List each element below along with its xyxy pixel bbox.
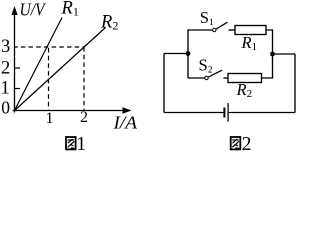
- wire bottom left: [164, 112, 224, 114]
- x-axis (I axis): [13, 107, 132, 113]
- svg-text:S1: S1: [200, 8, 214, 28]
- svg-text:R1: R1: [61, 0, 79, 19]
- wire S2 to R2: [224, 77, 229, 79]
- y-axis tick y=2: [15, 67, 21, 69]
- switch S1 pivot: [213, 28, 216, 31]
- wire right node to right rail: [273, 53, 296, 55]
- svg-text:R2: R2: [100, 13, 118, 33]
- resistor R1 box: [235, 26, 266, 35]
- svg-text:2: 2: [80, 109, 88, 126]
- svg-text:R1: R1: [241, 33, 258, 53]
- y-axis (U axis): [11, 6, 17, 113]
- caption 图1: [66, 134, 86, 155]
- svg-text:1: 1: [76, 134, 86, 155]
- switch S2 blade: [208, 70, 222, 77]
- switch S2 pivot: [205, 76, 208, 79]
- battery negative plate: [223, 108, 225, 118]
- svg-text:0: 0: [1, 97, 10, 117]
- switch S1 blade: [216, 22, 228, 29]
- wire left node to left rail: [164, 53, 188, 55]
- junction node left: [186, 51, 191, 56]
- svg-text:1: 1: [1, 79, 10, 99]
- dashed line x=1: [48, 48, 50, 110]
- dashed line x=2: [83, 47, 85, 110]
- svg-text:I/A: I/A: [112, 113, 138, 133]
- resistor R2 box: [228, 74, 262, 83]
- wire R2 to right node: [262, 54, 273, 78]
- wire left rail: [163, 54, 165, 113]
- svg-text:2: 2: [242, 134, 252, 155]
- wire S2 branch left: [188, 77, 205, 79]
- wire right rail: [294, 54, 296, 113]
- y-axis tick y=1: [15, 88, 21, 90]
- svg-text:2: 2: [1, 59, 10, 79]
- svg-text:U/V: U/V: [20, 0, 47, 20]
- wire top branch left corner: [188, 30, 213, 54]
- wire S1 to R1: [229, 29, 236, 31]
- wire left node vertical: [187, 54, 189, 79]
- caption 图2: [231, 134, 252, 155]
- svg-text:3: 3: [1, 37, 10, 57]
- svg-text:1: 1: [46, 110, 54, 127]
- y-axis tick y=3: [15, 46, 18, 48]
- dashed line y=3: [21, 46, 84, 48]
- battery positive plate: [227, 103, 229, 122]
- junction node right: [270, 52, 275, 57]
- line R2 (graph): [15, 28, 106, 111]
- svg-text:S2: S2: [199, 56, 213, 76]
- wire bottom right: [229, 112, 295, 114]
- wire R1 to right node: [266, 30, 273, 54]
- line R1 (graph): [15, 18, 63, 111]
